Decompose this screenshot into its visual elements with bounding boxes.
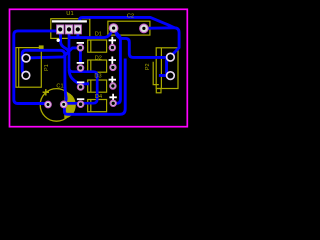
diode D2 outline (88, 60, 107, 72)
diode D1 outline (88, 40, 107, 52)
wire P1 pad1 to D1 left pad (26, 48, 80, 58)
D3 left pad (77, 81, 84, 90)
U1 pin1 white dot (57, 39, 60, 42)
wire P1 pad2 route to C1 pad2 (22, 50, 66, 104)
svg-text:C1: C1 (56, 84, 63, 90)
wire top rail from U1 pad3 area to right side (79, 17, 174, 27)
svg-text:P1: P1 (44, 64, 50, 71)
D3 right pad with cross (109, 76, 116, 89)
wire C2 pad2 to P2 pad1 (144, 28, 179, 56)
D2 right pad with cross (109, 57, 116, 71)
svg-text:D4: D4 (95, 94, 102, 100)
svg-text:U1: U1 (66, 11, 73, 17)
D4 right pad with cross (109, 94, 116, 107)
svg-text:P2: P2 (145, 63, 151, 70)
C2 pad 2 (140, 24, 149, 33)
wire D1 left pad to D2 left pad (79, 48, 82, 64)
svg-text:D2: D2 (95, 55, 102, 61)
svg-text:C2: C2 (127, 13, 134, 19)
C1 pad 2 (60, 101, 67, 108)
D1 right pad with cross (109, 37, 116, 51)
P1 pad 2 (22, 72, 30, 80)
wire GND horizontal to C2 pad1 (69, 29, 114, 38)
wire U1 pad3 stub down to GND rail (76, 31, 79, 38)
D2 left pad (77, 62, 84, 71)
board outline keepout (10, 9, 188, 126)
U1 pad 3 (74, 25, 81, 34)
diode D4 outline (88, 100, 107, 112)
wire C2 pad1 to vertical A and D4 right ring (113, 29, 120, 104)
P2 pad 1 (167, 53, 175, 61)
svg-text:D3: D3 (94, 74, 101, 80)
D4 left pad (77, 98, 84, 107)
wire U1 pad1 to C1 pad1 (left long route) (14, 31, 60, 104)
wire P2 pad1 to pad2 link (167, 57, 171, 75)
C1 pad 1 (45, 101, 52, 108)
wire C2 pad1 branch right to B vertical to P2 pad1 (116, 32, 171, 58)
svg-text:D1: D1 (95, 31, 102, 37)
diode D3 outline (88, 80, 107, 92)
component C2 outline (108, 21, 150, 35)
component P1 outline (16, 46, 43, 87)
component U1 outline (51, 19, 90, 39)
U1 pad 1 (57, 25, 64, 34)
wire U1 pad2 down-right GND spine (65, 29, 97, 103)
U1 pad 2 (65, 25, 72, 34)
wire U1 pad1 down merge into spine (60, 32, 69, 52)
C2 pad 1 (109, 24, 118, 33)
P2 pad 2 (167, 72, 175, 80)
wire C1 pad2 stub down to bottom rail (64, 59, 125, 115)
component C1 circle (40, 89, 76, 122)
wire branch to D3 left pad (69, 70, 89, 84)
D1 left pad (77, 42, 84, 51)
wire P2 pad2 stub left (159, 74, 171, 77)
component P2 outline (153, 48, 178, 93)
P1 pad 1 (22, 54, 30, 62)
U1 inner white line (52, 20, 87, 22)
